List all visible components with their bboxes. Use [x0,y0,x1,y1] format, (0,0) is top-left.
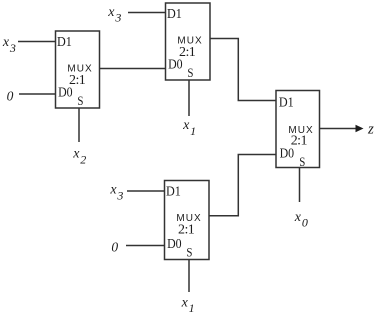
wire U4 output z [320,128,358,130]
wire 0 to U3 D0 [126,245,165,247]
svg-text:2:1: 2:1 [69,73,86,88]
pin label D1 of U1 [57,35,72,50]
wire U1 select S [78,108,80,142]
pin label D0 of U2 [168,57,183,72]
pin label S of U2 [187,65,193,80]
wire U2 output to U4 D1 [210,39,276,101]
svg-text:2:1: 2:1 [178,222,195,237]
wire U1 output to U2 D0 [100,68,166,70]
wire U3 select S [188,260,190,293]
pin label S of U3 [186,245,192,260]
value label 2:1 of U4 [291,134,308,149]
svg-text:S: S [77,93,83,108]
pin label D0 of U3 [167,237,182,252]
svg-text:S: S [187,65,193,80]
svg-text:D1: D1 [167,7,182,22]
svg-text:2:1: 2:1 [291,134,308,149]
value label 2:1 of U2 [179,45,196,60]
pin label D1 of U4 [279,95,294,110]
arrowhead on z output [356,125,364,133]
value label 2:1 of U1 [69,73,86,88]
svg-text:D1: D1 [279,95,294,110]
svg-text:0: 0 [111,239,118,254]
svg-text:D0: D0 [167,237,182,252]
wire U3 output to U4 D0 [209,155,276,216]
pin label S of U1 [77,93,83,108]
wire U2 select S [188,80,190,116]
mux U3 (bottom-middle 2:1 MUX) [165,181,210,260]
wire x3 to U1 D1 [18,41,56,43]
svg-text:D1: D1 [57,35,72,50]
mux U1 (top-left 2:1 MUX) [56,31,100,108]
wire x3 to U3 D1 [127,190,165,192]
svg-text:S: S [186,245,192,260]
wire 0 to U1 D0 [19,93,56,95]
pin label D0 of U4 [280,146,295,161]
pin label S of U4 [299,154,305,169]
mux U2 (top-middle 2:1 MUX) [166,3,211,80]
svg-text:z: z [367,121,374,137]
pin label D0 of U1 [58,85,73,100]
wire U4 select S [299,168,301,203]
svg-text:D1: D1 [166,184,181,199]
value label 2:1 of U3 [178,222,195,237]
svg-text:0: 0 [7,89,14,104]
wire x3 to U2 D1 [128,12,166,14]
svg-text:2:1: 2:1 [179,45,196,60]
pin label D1 of U3 [166,184,181,199]
mux U4 (right output 2:1 MUX) [276,91,320,168]
pin label D1 of U2 [167,7,182,22]
svg-text:S: S [299,154,305,169]
